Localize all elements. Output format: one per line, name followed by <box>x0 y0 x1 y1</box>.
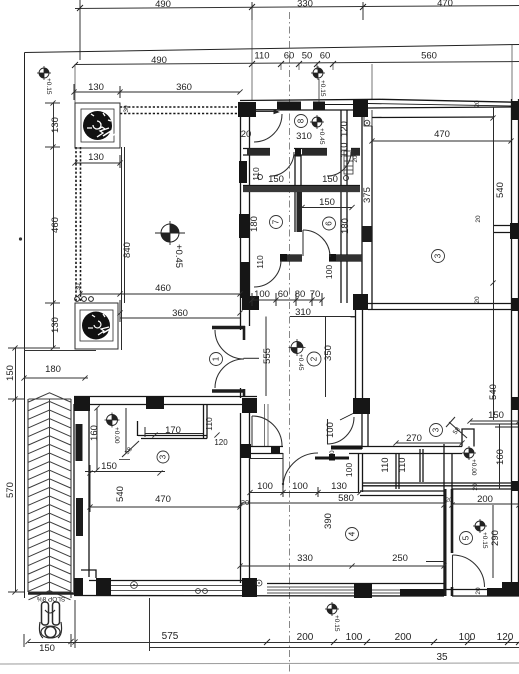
columns small rooms S wall <box>254 186 262 193</box>
three small circles at wall base <box>75 297 94 302</box>
column corridor west <box>242 296 259 310</box>
tiny rooms south wall <box>243 185 360 187</box>
dim 330/250 <box>240 565 444 567</box>
svg-text:5: 5 <box>462 535 471 540</box>
svg-text:20: 20 <box>475 587 482 595</box>
svg-text:60: 60 <box>320 51 331 62</box>
dim 470 room3-left <box>90 506 240 508</box>
bottom-left wheelchair fixture <box>39 602 61 638</box>
svg-text:540: 540 <box>488 384 499 400</box>
column room3mid SW <box>353 398 370 414</box>
SW corner south wall columns <box>74 578 83 595</box>
room 5 <box>460 532 473 545</box>
svg-text:555: 555 <box>262 348 273 364</box>
svg-text:30: 30 <box>75 283 82 291</box>
dimension row B line <box>75 62 519 65</box>
north wall outer line <box>240 99 519 102</box>
level marker +0.15 bottom <box>325 602 339 616</box>
east wall of big room <box>240 110 242 330</box>
dim 150 right mid <box>470 420 519 422</box>
tiny circles on south wall <box>131 582 138 589</box>
svg-text:100: 100 <box>324 265 334 279</box>
svg-text:100: 100 <box>257 481 273 492</box>
svg-text:130: 130 <box>50 317 61 333</box>
room 8 <box>295 115 308 128</box>
wall between room4 and room5 <box>443 444 445 596</box>
bottom faint long line <box>0 663 519 664</box>
closet south wall <box>362 482 519 484</box>
svg-text:310: 310 <box>295 307 311 318</box>
room4 west wall <box>240 446 242 583</box>
svg-text:35: 35 <box>436 652 448 663</box>
level marker +0.15 room5 <box>473 519 487 533</box>
double door 1: top stub <box>212 326 245 330</box>
row B labels <box>151 51 437 67</box>
wall between corridor strip and room3 upper <box>361 110 363 309</box>
svg-text:70: 70 <box>310 289 321 300</box>
west window band of big room <box>76 147 81 303</box>
column N4 <box>353 99 368 117</box>
dim 130/360 top inside <box>74 91 240 93</box>
svg-text:100: 100 <box>292 481 308 492</box>
svg-text:20: 20 <box>241 498 249 507</box>
right boundary wall <box>511 99 513 591</box>
door room6 leaf <box>302 230 304 256</box>
column right wall y404 <box>511 397 519 410</box>
svg-text:100: 100 <box>346 632 363 643</box>
room 3 left <box>157 451 169 463</box>
svg-text:330: 330 <box>297 553 313 564</box>
room 1 <box>210 353 223 366</box>
svg-text:160: 160 <box>89 425 100 441</box>
tiny circles fixtures tiny rooms <box>258 175 263 180</box>
level marker +0.00 room3-left <box>105 413 120 428</box>
door room6 arc <box>303 230 330 257</box>
svg-text:120: 120 <box>214 438 228 447</box>
room 8 / 6 east wall <box>340 110 342 303</box>
dim 100/100/130 <box>250 492 360 494</box>
door main entry arc <box>254 114 282 142</box>
dim 130 below box1 <box>75 162 120 164</box>
small rooms north wall <box>243 148 270 150</box>
svg-text:110: 110 <box>204 417 214 431</box>
svg-text:150: 150 <box>319 197 335 208</box>
svg-text:150: 150 <box>322 174 338 185</box>
svg-text:+0.45: +0.45 <box>297 354 304 371</box>
site boundary left <box>24 53 26 599</box>
svg-text:+0.45: +0.45 <box>318 128 325 145</box>
svg-text:460: 460 <box>50 217 61 233</box>
corridor south jog walls <box>331 446 362 450</box>
svg-text:840: 840 <box>122 242 133 258</box>
svg-text:120: 120 <box>497 632 514 643</box>
level marker +0.15 top left <box>37 66 51 80</box>
level marker +0.00 right <box>462 446 476 460</box>
rooms 7/6 divider <box>294 191 296 232</box>
svg-text:3: 3 <box>159 454 168 459</box>
tiny rooms north wall dark bands <box>243 149 372 262</box>
svg-text:100: 100 <box>459 632 476 643</box>
svg-text:290: 290 <box>490 530 501 546</box>
door room5 arc <box>453 555 485 587</box>
door 58deg room3-mid leaf <box>449 422 467 438</box>
dim 460/360 inside big room <box>80 293 240 295</box>
door main entry leaf <box>256 111 278 113</box>
bottom dim ticks <box>264 639 519 645</box>
level marker +0.45 corridor <box>289 339 306 356</box>
svg-text:490: 490 <box>155 0 171 10</box>
row B extension stubs <box>75 20 512 103</box>
column right wall y298 <box>511 298 519 311</box>
rooms 7/6 south wall stubs <box>280 254 302 256</box>
window sill line big room <box>121 147 123 350</box>
level marker +0.45 top center <box>311 66 325 80</box>
svg-text:+0.00: +0.00 <box>470 459 477 476</box>
dim 160 room3-left <box>96 408 98 470</box>
tiny room divider top <box>295 149 301 157</box>
tiny rooms divider <box>294 155 296 191</box>
door tiny room B arc <box>327 152 351 176</box>
dim 150 room3-left <box>85 471 165 473</box>
svg-text:20: 20 <box>472 483 479 491</box>
svg-text:6: 6 <box>325 221 334 226</box>
right side wall y=225 <box>493 225 519 227</box>
room 2 <box>307 352 321 366</box>
column N3 <box>313 102 325 111</box>
svg-text:360: 360 <box>172 308 188 319</box>
svg-text:20: 20 <box>474 100 481 108</box>
site boundary top <box>25 45 519 53</box>
svg-text:110: 110 <box>380 457 391 472</box>
svg-text:150: 150 <box>268 174 284 185</box>
svg-text:330: 330 <box>297 0 313 10</box>
svg-text:200: 200 <box>477 494 493 505</box>
svg-text:110: 110 <box>339 142 350 157</box>
room 4 <box>346 528 359 541</box>
door room4 down arc <box>283 453 318 488</box>
svg-text:20: 20 <box>475 215 482 223</box>
door corridor-to-room4 up arc <box>252 416 282 446</box>
tree 2 <box>82 312 110 340</box>
column big room SW <box>74 397 90 411</box>
svg-text:180: 180 <box>249 216 260 232</box>
bottom sub line <box>150 647 519 649</box>
ramp hatch area <box>29 393 72 600</box>
column SE <box>487 588 519 596</box>
svg-text:100: 100 <box>325 422 336 438</box>
column right wall y225 <box>510 223 519 239</box>
svg-text:100: 100 <box>254 289 270 300</box>
svg-text:1: 1 <box>212 356 221 361</box>
svg-text:+0.15: +0.15 <box>481 532 488 549</box>
column N2 <box>277 102 301 111</box>
dim 150 room6 <box>302 207 352 209</box>
column room4 NW <box>240 444 251 458</box>
svg-text:350: 350 <box>323 345 334 361</box>
door room7 arc <box>254 260 281 287</box>
door corridor-to-room3mid leaf <box>327 419 329 444</box>
vertical dim 100 near room4 door <box>265 404 269 446</box>
svg-text:130: 130 <box>50 117 61 133</box>
north wall inner line left part <box>240 109 368 111</box>
svg-text:+0.00: +0.00 <box>113 427 120 444</box>
svg-text:3: 3 <box>434 253 443 258</box>
hatch bottom dark edge <box>28 592 74 594</box>
dimension row A line <box>75 6 519 9</box>
svg-text:170: 170 <box>165 425 181 436</box>
corridor west wall lower <box>240 413 242 446</box>
svg-text:160: 160 <box>495 449 506 465</box>
north wall window mid line right <box>368 104 511 107</box>
row A labels <box>155 0 453 10</box>
dim 170 <box>145 433 203 435</box>
level marker +0.45 big room <box>155 221 185 245</box>
room3 upper inner corner jog <box>364 110 372 126</box>
dim 200 room5 <box>452 503 519 505</box>
heated towel radiator <box>344 151 353 174</box>
svg-text:7: 7 <box>272 219 281 224</box>
door corridor-to-room4 up leaf <box>251 416 253 446</box>
svg-text:570: 570 <box>5 482 16 498</box>
door corridor-to-room3mid arc <box>327 417 354 444</box>
svg-text:310: 310 <box>296 131 312 142</box>
svg-text:100: 100 <box>344 463 354 477</box>
svg-text:150: 150 <box>101 461 117 472</box>
corridor dim line <box>252 299 322 301</box>
svg-text:130: 130 <box>88 82 104 93</box>
svg-text:110: 110 <box>254 51 269 62</box>
svg-text:120: 120 <box>339 121 350 137</box>
door 58deg room3-left leaf <box>125 408 127 452</box>
svg-text:150: 150 <box>39 643 55 654</box>
svg-text:150: 150 <box>5 365 16 381</box>
door room4 down leaf <box>282 453 284 488</box>
dim row A ticks <box>77 4 366 11</box>
north wall window 325-353 <box>325 104 353 106</box>
svg-text:8: 8 <box>297 118 306 123</box>
svg-text:580: 580 <box>338 493 354 504</box>
dim 555/350 verticals <box>265 317 267 397</box>
svg-text:20: 20 <box>445 497 453 504</box>
jog near 58 door right <box>462 429 474 447</box>
room 6 <box>323 217 336 230</box>
big room east wall black strip <box>239 214 250 238</box>
svg-text:200: 200 <box>395 632 412 643</box>
bottom dim line <box>28 642 519 644</box>
interior dim texts <box>75 82 506 595</box>
svg-text:+0.15: +0.15 <box>319 80 326 97</box>
tree 1 <box>83 111 112 140</box>
svg-text:150: 150 <box>488 410 504 421</box>
svg-text:80: 80 <box>295 289 306 300</box>
room 3 upper <box>432 250 445 263</box>
svg-text:200: 200 <box>297 632 314 643</box>
north window band of big room <box>120 107 240 114</box>
center axis <box>289 12 291 674</box>
svg-text:+0.45: +0.45 <box>173 244 184 268</box>
svg-text:60: 60 <box>278 289 289 300</box>
column N1 <box>238 102 256 117</box>
svg-text:575: 575 <box>162 631 179 642</box>
hatch border lines <box>27 399 29 592</box>
svg-text:490: 490 <box>151 55 167 66</box>
room3-left inner partition <box>138 435 207 437</box>
dim row B ticks <box>72 61 336 68</box>
left dim labels <box>5 117 61 654</box>
svg-text:20: 20 <box>329 450 336 458</box>
svg-text:30: 30 <box>123 105 130 113</box>
right side balcony line y=427 <box>495 426 519 428</box>
room3-left: west wall <box>73 404 75 592</box>
level marker +0.45 room8 <box>310 115 324 129</box>
svg-text:180: 180 <box>340 218 351 234</box>
dim 270 line <box>396 442 462 444</box>
ramp center dotted line <box>49 399 51 592</box>
north wall inner line right part <box>368 107 511 108</box>
double door 1 arcs <box>215 330 244 359</box>
svg-text:4: 4 <box>348 531 357 536</box>
svg-text:250: 250 <box>392 553 408 564</box>
svg-text:SLOP 8%: SLOP 8% <box>37 595 66 602</box>
planter box 1 <box>75 103 120 148</box>
svg-text:375: 375 <box>362 187 373 203</box>
svg-text:130: 130 <box>331 481 347 492</box>
column big room S mid <box>146 396 164 409</box>
big room east wall lower part <box>240 388 242 398</box>
svg-text:460: 460 <box>155 283 171 294</box>
column NE corner <box>511 101 519 120</box>
south wall lines <box>89 580 257 582</box>
double door 1: bottom stub <box>212 389 245 393</box>
room 3 mid <box>430 424 443 437</box>
corridor south wall right of axis (room3 upper south wall) <box>353 303 519 305</box>
svg-text:110: 110 <box>251 167 261 181</box>
tiny circle top right corner <box>364 120 370 126</box>
svg-text:360: 360 <box>176 82 192 93</box>
svg-text:110: 110 <box>255 255 265 269</box>
svg-text:390: 390 <box>323 513 334 529</box>
svg-text:20: 20 <box>352 155 359 163</box>
svg-text:50: 50 <box>302 51 313 62</box>
svg-text:3: 3 <box>432 427 441 432</box>
door tiny room A arc <box>270 152 294 176</box>
svg-text:560: 560 <box>421 51 437 62</box>
svg-text:20: 20 <box>474 296 481 304</box>
planter box 2 <box>75 303 118 349</box>
room 7 <box>270 216 283 229</box>
room4 north wall <box>250 446 283 448</box>
dim 580 <box>240 502 444 504</box>
south windows triple lines <box>111 586 400 594</box>
svg-text:540: 540 <box>115 486 126 502</box>
svg-text:270: 270 <box>406 433 422 444</box>
svg-text:110: 110 <box>397 457 408 472</box>
room3-mid west wall <box>355 307 357 398</box>
svg-text:+0.15: +0.15 <box>45 78 52 95</box>
dim 540 room3 upper vertical <box>493 107 495 420</box>
closet dividers right <box>395 453 397 489</box>
svg-text:2: 2 <box>310 356 319 361</box>
bottom dim labels <box>162 631 514 663</box>
svg-text:+0.15: +0.15 <box>333 615 340 632</box>
svg-text:470: 470 <box>155 494 171 505</box>
column room3upper SW <box>353 294 368 310</box>
dim 180 line <box>24 377 88 379</box>
svg-text:20: 20 <box>241 129 252 140</box>
bottom-left dim 150 <box>23 634 25 647</box>
column big room SE <box>242 398 257 413</box>
svg-text:180: 180 <box>45 364 61 375</box>
svg-text:540: 540 <box>495 182 506 198</box>
dim 470 room3 upper <box>372 140 511 142</box>
dim row A extension lines <box>79 0 81 60</box>
svg-text:470: 470 <box>434 129 450 140</box>
svg-text:60: 60 <box>284 51 295 62</box>
big room south wall <box>74 396 257 398</box>
svg-text:470: 470 <box>437 0 453 9</box>
left dim line 130/460/130 <box>53 103 55 348</box>
svg-text:130: 130 <box>88 152 104 163</box>
left dim line 150/570 <box>15 348 17 592</box>
